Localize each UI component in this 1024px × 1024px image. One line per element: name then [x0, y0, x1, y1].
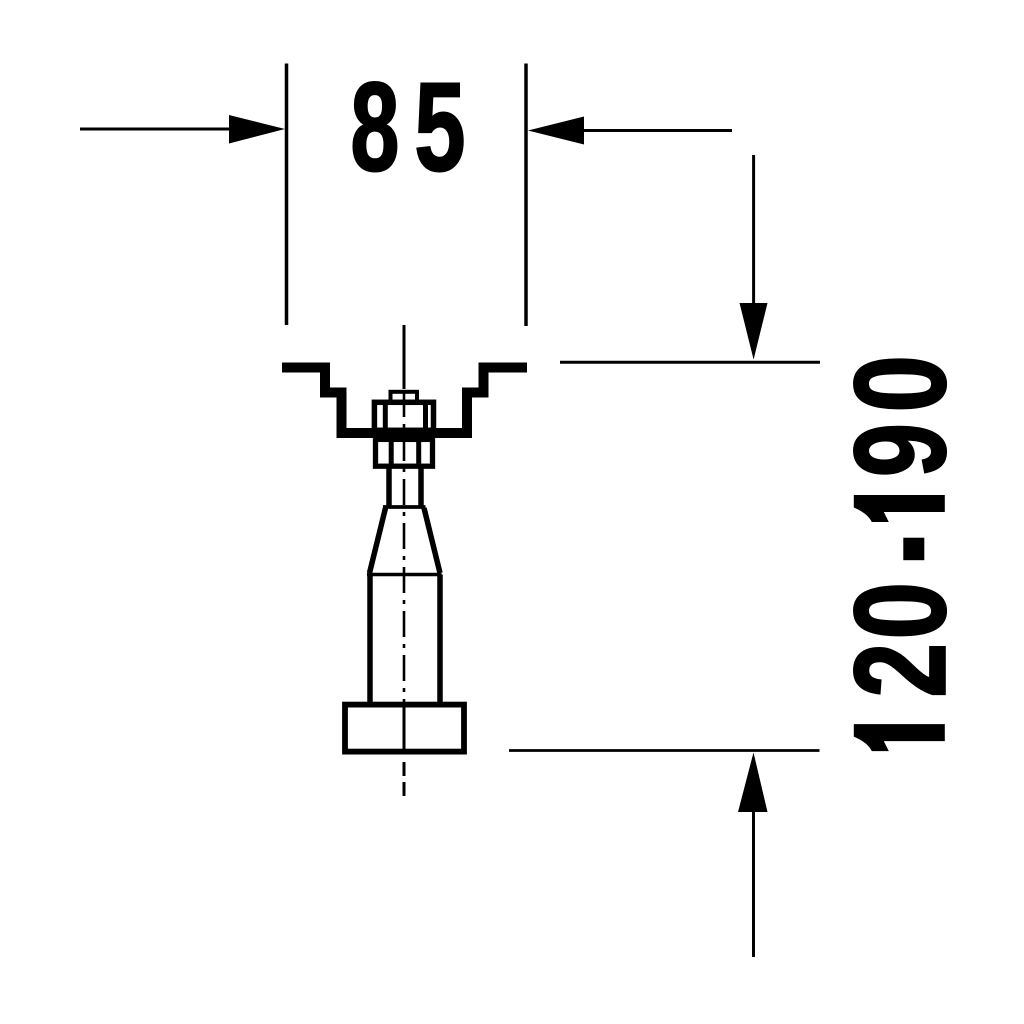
centerline solid top	[403, 325, 406, 389]
bolt top cap	[391, 392, 418, 403]
dimension label 85	[350, 57, 465, 198]
taper/body junction line	[367, 573, 442, 577]
shoulder line at taper top	[383, 505, 426, 509]
left arrow tail (width dim)	[80, 128, 232, 131]
body right side	[437, 575, 443, 704]
svg-text:2: 2	[828, 643, 973, 698]
nut face line left	[383, 402, 388, 431]
down arrowhead (height dim)	[740, 303, 768, 360]
centerline solid through base	[403, 703, 406, 752]
right extension line	[524, 64, 528, 327]
nut body	[374, 402, 433, 430]
svg-text:8: 8	[350, 58, 399, 198]
svg-text:0: 0	[827, 355, 973, 413]
svg-text:9: 9	[828, 423, 973, 477]
bottom reference line	[509, 749, 820, 752]
threaded shank right side	[418, 467, 424, 508]
left arrowhead (width dim)	[229, 115, 285, 144]
body left side	[367, 575, 373, 704]
height dimension line lower segment	[752, 812, 755, 957]
svg-text:0: 0	[827, 582, 973, 640]
lower nut face line right	[416, 439, 421, 466]
right arrowhead (width dim)	[528, 117, 584, 145]
threaded shank left side	[386, 467, 392, 508]
base foot	[345, 705, 464, 752]
centerline dashes below base	[403, 762, 406, 797]
svg-text:5: 5	[414, 57, 465, 197]
height dimension line upper segment	[752, 155, 755, 308]
left extension line	[285, 64, 289, 326]
taper right side	[424, 508, 440, 573]
up arrowhead (height dim)	[738, 753, 768, 813]
nut face line right	[423, 402, 428, 431]
lower nut body	[376, 439, 433, 466]
right arrow tail (width dim)	[584, 129, 732, 132]
dimension label 120-190 (rotated)	[827, 355, 973, 751]
top reference line	[560, 361, 820, 364]
lower nut face line left	[389, 439, 394, 466]
taper left side	[370, 508, 386, 573]
tub rim bracket profile	[282, 368, 527, 434]
centerline dash-dot middle	[403, 391, 406, 703]
